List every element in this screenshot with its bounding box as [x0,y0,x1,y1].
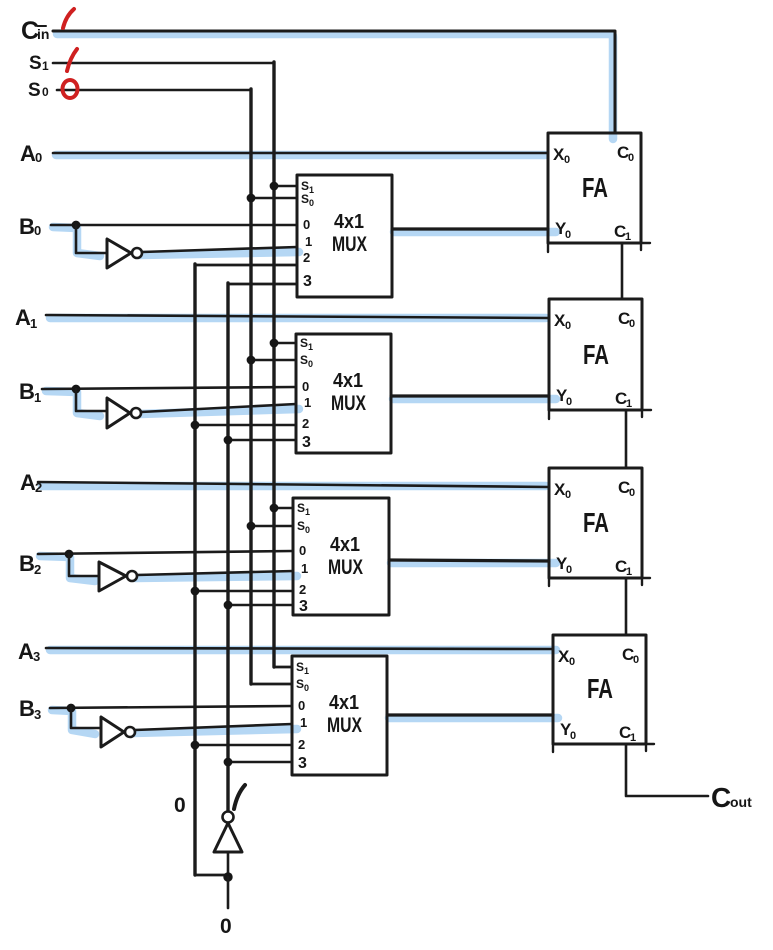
wire MUX2 input 3 stub [228,439,296,442]
svg-text:in: in [37,26,49,42]
wire B1 to MUX2 input 0 [42,387,296,389]
inverter B0 NOT gate [107,239,142,268]
highlight MUX1 output wire [394,228,556,237]
svg-text:MUX: MUX [332,233,367,256]
svg-text:S: S [28,80,41,101]
svg-text:A: A [15,305,31,330]
wire MUX4 input 2 stub [195,744,292,747]
svg-text:0: 0 [570,730,576,742]
wire MUX2 output to FA2 Y [391,394,549,397]
svg-text:0: 0 [564,154,570,166]
highlight B1 inverter output wire [140,409,299,414]
svg-text:MUX: MUX [327,714,362,737]
label 1 slash at bottom inverter [234,785,245,809]
svg-text:0: 0 [299,543,306,558]
svg-text:MUX: MUX [331,392,366,415]
node MUX3 input3 junction [224,601,233,610]
full-adder FA2 box [549,299,642,410]
wire MUX4 input 3 stub [228,761,292,764]
svg-text:1: 1 [625,231,631,243]
highlight A1 wire [50,314,546,323]
svg-text:S: S [29,53,42,74]
svg-text:2: 2 [34,562,41,577]
svg-text:S: S [300,336,308,350]
svg-text:A: A [20,470,36,495]
tick FA1 corner overshoots [548,243,650,252]
label B3 [19,696,41,722]
tick FA4 corner overshoots [553,744,654,752]
svg-text:B: B [19,214,35,239]
svg-text:FA: FA [583,507,609,538]
highlight B0 inverter output wire [140,252,299,255]
svg-text:1: 1 [301,561,308,576]
node MUX2 input3 junction [224,436,233,445]
svg-text:1: 1 [626,398,632,410]
svg-text:A: A [20,141,36,166]
full-adder FA3 box [549,468,642,578]
svg-text:2: 2 [298,737,305,752]
label S0 [28,80,49,101]
svg-text:MUX: MUX [328,556,363,579]
svg-text:1: 1 [304,395,311,410]
svg-text:4x1: 4x1 [330,534,360,556]
svg-text:1: 1 [308,342,313,352]
wire B2 to MUX3 input 0 [38,551,293,554]
wire A2 [38,482,549,487]
node MUX2 input2 junction [191,421,200,430]
svg-text:0: 0 [566,564,572,576]
node S1-MUX2 junction [270,339,279,348]
highlight B2 inverter output wire [135,576,297,578]
svg-text:4x1: 4x1 [334,211,364,233]
svg-text:S: S [297,519,305,533]
wire MUX4 output to FA4 Y [387,713,553,716]
svg-text:0: 0 [629,487,635,499]
svg-text:B: B [19,379,35,404]
red circle 0 on S0 [63,80,78,98]
wire S1 stub to MUX1 [274,185,297,188]
svg-text:FA: FA [587,673,613,704]
node MUX4 input3 junction [224,758,233,767]
svg-text:0: 0 [305,525,310,535]
wire B0 inverter output to MUX1 input 1 [142,247,297,252]
wire S1 stub to MUX2 [274,342,296,345]
svg-text:3: 3 [33,649,40,664]
full-adder FA4 box [553,635,646,744]
highlight MUX4 output wire [389,714,558,723]
svg-text:0: 0 [633,654,639,666]
label Cout [711,782,752,813]
label A2 [20,470,42,495]
svg-text:S: S [296,677,304,691]
svg-text:0: 0 [566,396,572,408]
node MUX4 input2 junction [191,741,200,750]
wire B0 to MUX1 input 0 [51,224,297,227]
svg-text:FA: FA [582,172,608,203]
wire B3 inverter output to MUX4 input 1 [135,724,292,730]
highlight B0 wire start [53,227,100,256]
mux U4 4x1 MUX box [292,656,387,775]
svg-text:1: 1 [309,185,314,195]
wire B2 inverter output to MUX3 input 1 [137,571,293,575]
wire bottom 0 source [227,877,230,908]
red slash 1 on Cin [63,9,74,28]
node S0-MUX2 junction [247,356,256,365]
inverter B1 NOT gate [107,398,141,428]
svg-text:1: 1 [300,715,307,730]
mux U2 4x1 MUX box [296,334,391,453]
svg-text:2: 2 [302,416,309,431]
svg-text:3: 3 [298,755,307,772]
wire FA4 carry out to Cout [626,744,708,796]
svg-text:B: B [19,551,35,576]
svg-text:0: 0 [174,794,186,817]
svg-text:1: 1 [34,390,41,405]
highlight A2 wire [42,482,546,491]
highlight A3 wire [50,646,556,655]
label S1 [29,53,49,74]
node B3 junction [67,704,76,713]
highlight B1 wire start [46,391,100,416]
wire S1 net horizontal+vertical [53,62,274,65]
wire B3 to inverter [71,708,101,728]
wire MUX3 input 3 stub [228,604,293,607]
svg-text:1: 1 [626,566,632,578]
svg-text:0: 0 [35,150,42,165]
wire constant-1 net vertical [228,283,297,286]
svg-text:S: S [297,501,305,515]
svg-text:2: 2 [299,582,306,597]
label B0 [19,214,41,239]
highlight B3 wire start [52,710,95,734]
wire A0 [53,152,548,155]
node S1-MUX3 junction [270,504,279,513]
inverter B3 NOT gate [101,717,135,747]
wire B3 to MUX4 input 0 [50,706,292,708]
svg-text:1: 1 [305,507,310,517]
node MUX3 input2 junction [191,587,200,596]
svg-text:1: 1 [305,234,312,249]
svg-text:0: 0 [304,683,309,693]
svg-text:2: 2 [303,250,310,265]
svg-text:B: B [19,696,35,721]
label B1 [19,379,41,405]
svg-text:0: 0 [309,198,314,208]
red slash 1 on S1 [67,49,77,71]
svg-text:0: 0 [34,223,41,238]
svg-text:S: S [296,660,304,674]
svg-text:3: 3 [303,273,312,290]
svg-text:1: 1 [30,316,37,331]
svg-text:0: 0 [298,698,305,713]
highlight MUX3 output wire [391,559,556,568]
node B1 junction [72,385,81,394]
wire FA2 carry out to FA3 [625,410,628,468]
label Cin [21,17,49,45]
wire B1 to inverter [76,389,107,411]
svg-text:out: out [730,794,752,810]
wire Cin net [53,31,615,133]
svg-text:0: 0 [565,320,571,332]
svg-text:4x1: 4x1 [329,692,359,714]
svg-text:A: A [18,639,34,664]
highlight A0 wire [56,151,545,160]
svg-text:0: 0 [220,915,232,938]
svg-text:0: 0 [308,359,313,369]
full-adder FA1 box [548,133,641,243]
wire S0 stub to MUX1 [251,197,297,200]
wire S0 stub to MUX3 [251,525,293,528]
svg-text:S: S [301,192,309,206]
svg-text:0: 0 [569,656,575,668]
wire A3 [46,648,553,649]
svg-text:0: 0 [303,217,310,232]
wire MUX3 output to FA3 Y [389,560,549,561]
highlight B2 wire start [40,556,95,581]
mux U1 4x1 MUX box [297,175,392,297]
svg-text:0: 0 [302,379,309,394]
svg-text:3: 3 [299,598,308,615]
label B2 [19,551,41,577]
svg-text:4x1: 4x1 [333,370,363,392]
wire B1 inverter output to MUX2 input 1 [141,404,296,412]
svg-text:1: 1 [630,732,636,744]
svg-text:3: 3 [302,434,311,451]
label A0 [20,141,42,166]
wire MUX2 input 2 stub [195,424,296,427]
svg-text:0: 0 [565,229,571,241]
svg-text:C: C [711,782,731,813]
svg-text:0: 0 [42,85,49,99]
tick FA2 corner overshoots [549,410,651,419]
wire A1 [46,315,549,318]
svg-text:1: 1 [304,666,309,676]
node bottom 0 junction [223,872,232,881]
svg-text:0: 0 [629,318,635,330]
wire MUX3 input 2 stub [195,590,293,593]
svg-text:0: 0 [628,152,634,164]
tick FA3 corner overshoots [549,578,650,586]
highlight Cin wire [57,34,613,139]
inverter B2 NOT gate [99,562,137,591]
inverter bottom NOT gate (0 to 1) [214,812,242,878]
svg-text:1: 1 [42,59,49,73]
svg-text:S: S [301,179,309,193]
svg-text:FA: FA [583,339,609,370]
node S0-MUX1 junction [247,194,256,203]
wire S0 stub to MUX2 [251,359,296,362]
wire FA1 carry out to FA2 [621,243,624,299]
svg-text:S: S [300,353,308,367]
highlight MUX2 output wire [393,395,556,404]
wire constant-0 net vertical [195,264,297,267]
wire B0 to inverter [76,225,107,253]
svg-text:0: 0 [565,489,571,501]
wire FA3 carry out to FA4 [625,578,628,635]
node B2 junction [65,550,74,559]
label A3 [18,639,40,664]
wire S0 net horizontal+vertical [57,89,251,92]
wire MUX1 output to FA1 Y [392,227,548,230]
node S1-MUX1 junction [270,182,279,191]
node S0-MUX3 junction [247,522,256,531]
highlight B3 inverter output wire [133,729,297,733]
mux U3 4x1 MUX box [293,498,389,615]
label A1 [15,305,37,331]
wire B2 to inverter [69,554,99,576]
wire S1 stub to MUX3 [274,507,293,510]
node B0 junction [72,221,81,230]
svg-text:3: 3 [34,707,41,722]
